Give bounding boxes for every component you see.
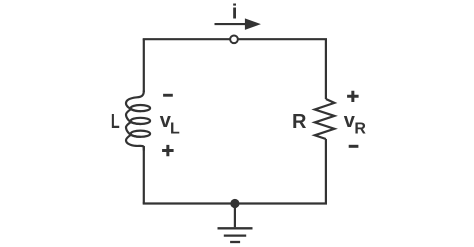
polarity plus of v_L (162, 145, 174, 156)
resistor R (315, 99, 335, 139)
wire: left vertical lower segment (143, 146, 145, 204)
ground (218, 204, 253, 243)
junction node (bottom) (230, 199, 239, 208)
svg-text:R: R (292, 111, 307, 133)
wire: right vertical upper segment (325, 39, 327, 99)
wire: top horizontal (node to both top corners) (143, 38, 327, 40)
node: open terminal circle on top wire (230, 35, 238, 43)
polarity minus of v_L (163, 94, 173, 97)
inductor L (126, 91, 150, 150)
polarity plus of v_R (347, 91, 359, 102)
wire: left vertical upper segment (143, 39, 145, 92)
wire: bottom horizontal (corner to corner through ground junction) (143, 202, 327, 204)
svg-text:vR: vR (344, 110, 367, 137)
polarity minus of v_R (349, 145, 359, 148)
svg-text:L: L (111, 111, 120, 133)
svg-text:i: i (232, 1, 238, 24)
svg-text:vL: vL (160, 110, 180, 138)
current arrow (215, 18, 261, 30)
wire: right vertical lower segment (325, 139, 327, 204)
